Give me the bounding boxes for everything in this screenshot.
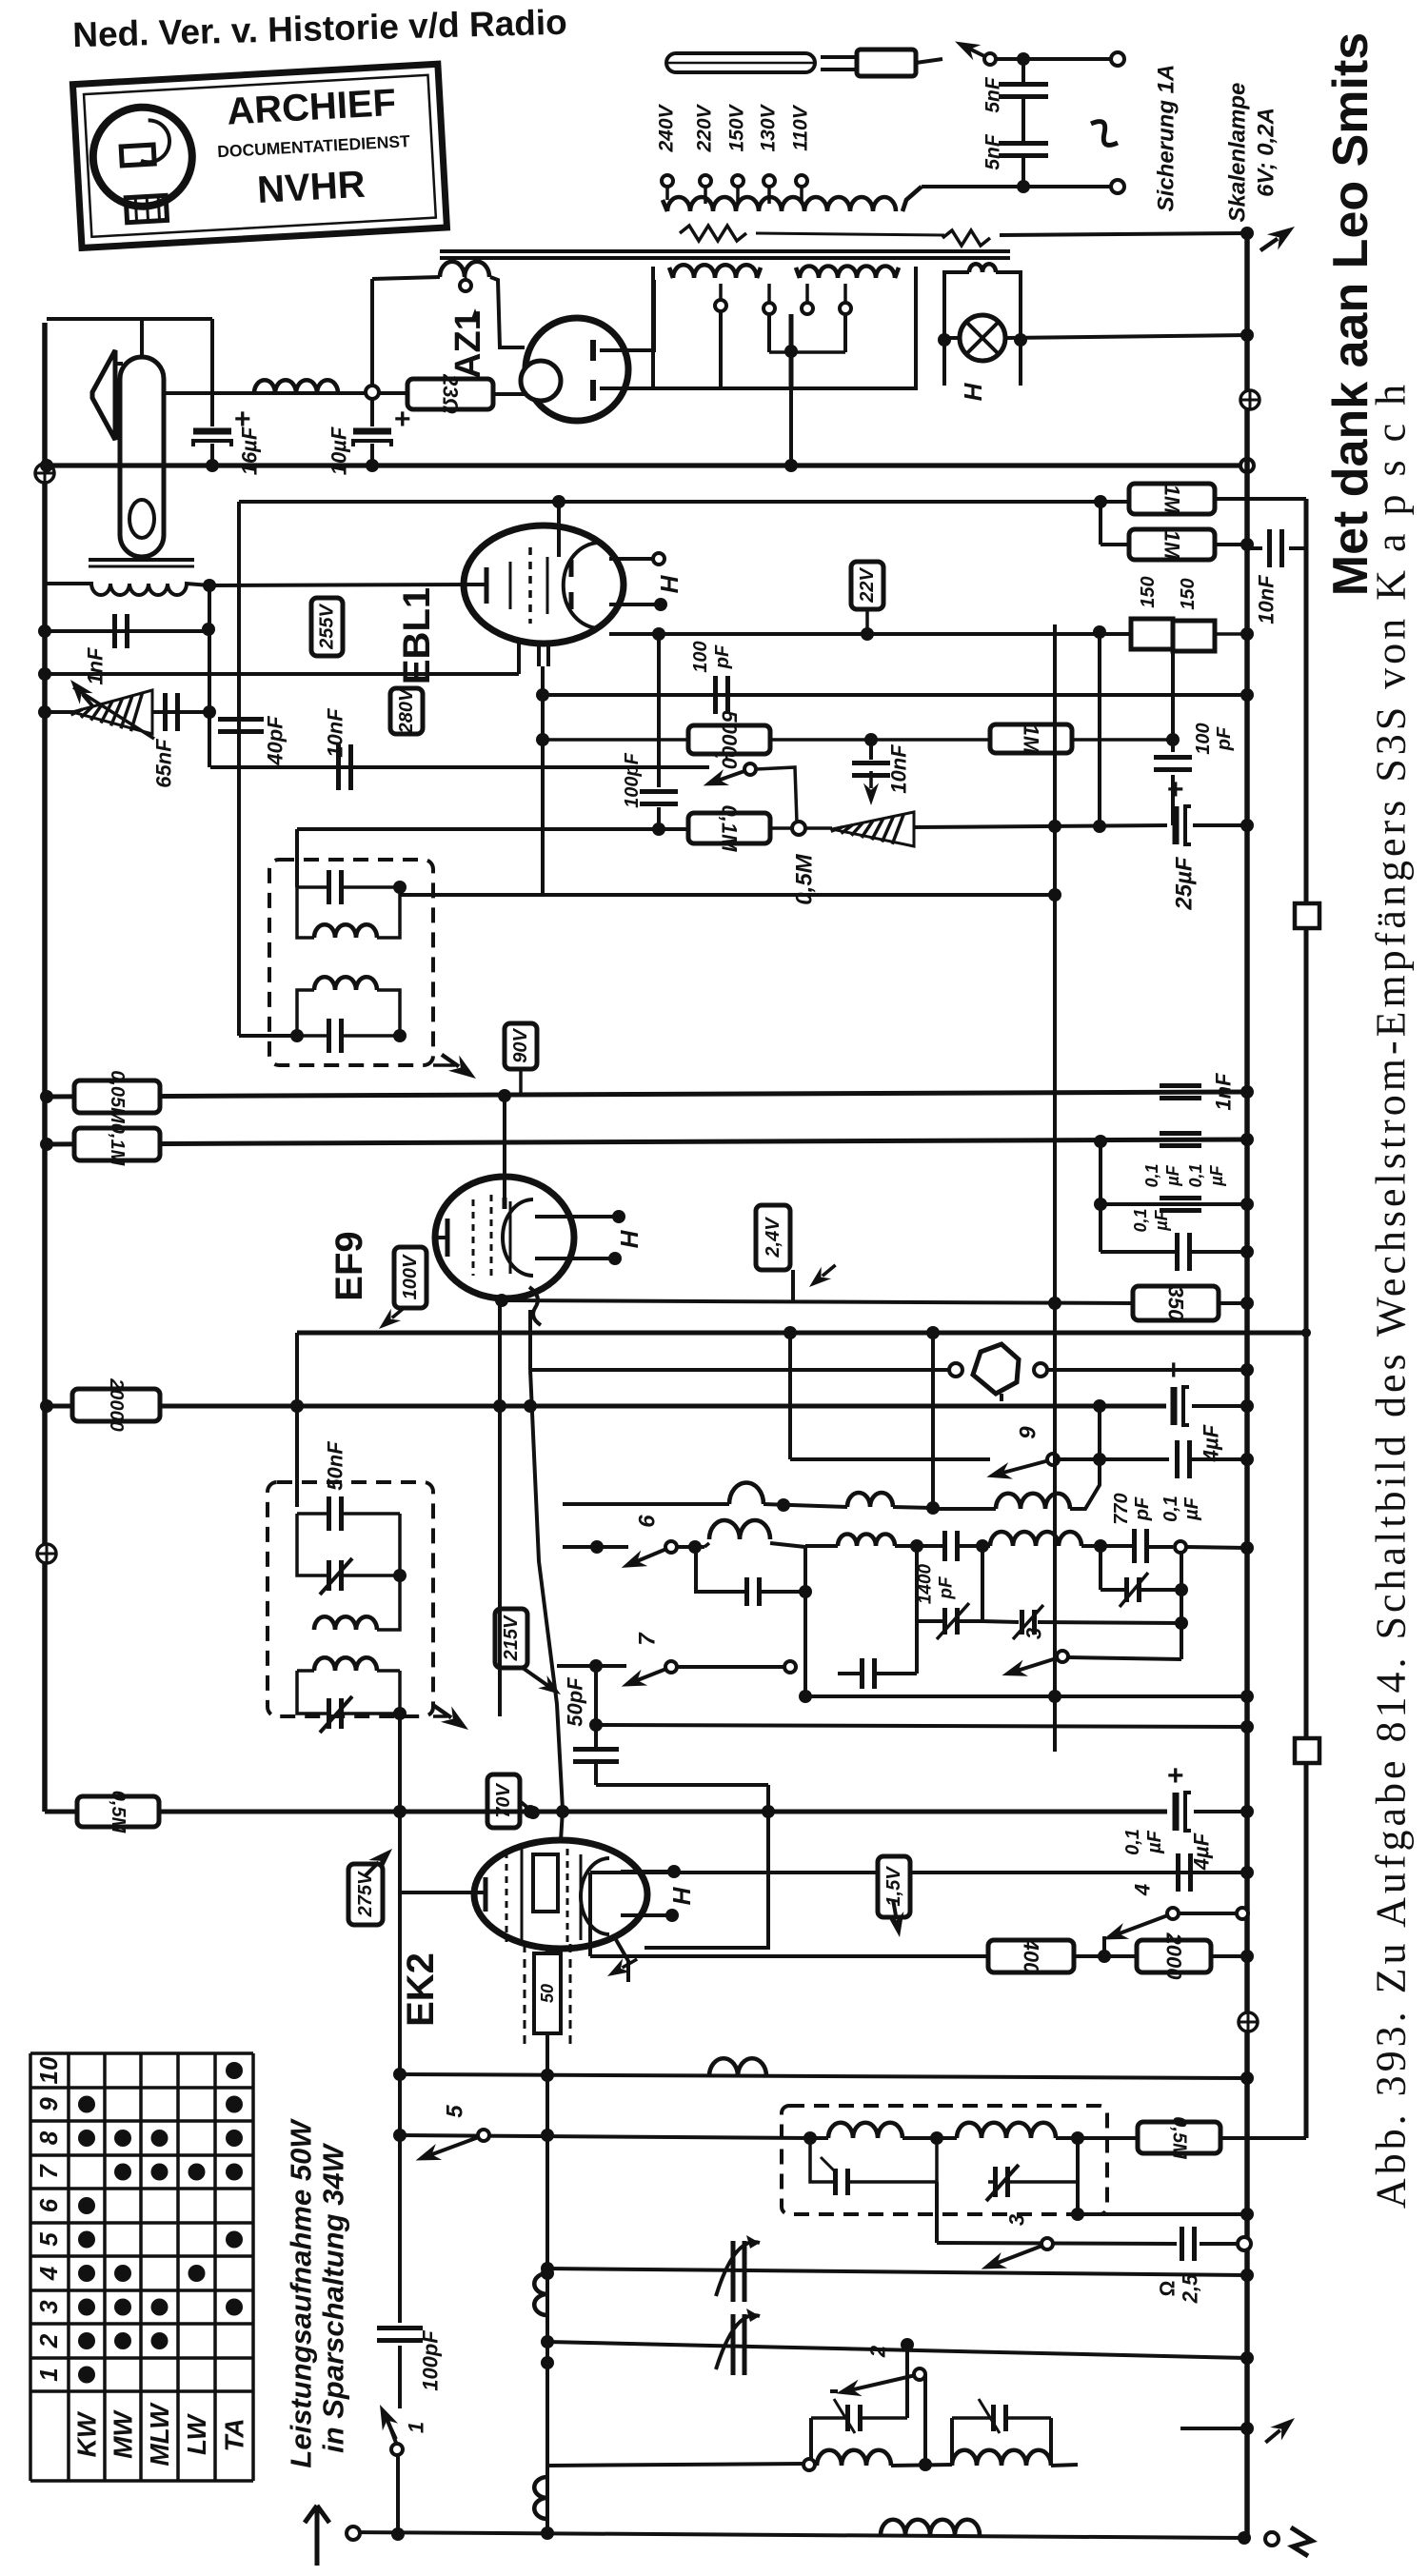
svg-text:16µF: 16µF [238, 426, 262, 475]
svg-text:255V: 255V [317, 603, 338, 649]
speaker transformer [45, 560, 216, 595]
label 1400pF [916, 1563, 957, 1604]
IF2 top cap [290, 1399, 400, 1531]
svg-text:H: H [615, 1229, 644, 1248]
vert x251 [237, 502, 241, 1036]
square coupler b [1295, 1738, 1319, 1763]
IF1 bottom coil [297, 977, 400, 1036]
capacitor 10nF row [339, 744, 351, 790]
EK2 heater stubs [621, 1865, 681, 1922]
svg-text:Sicherung 1A: Sicherung 1A [1154, 65, 1180, 212]
svg-text:50pF: 50pF [564, 1677, 587, 1727]
label 100pF bottom [419, 2330, 443, 2391]
switch 2b [830, 2345, 925, 2462]
svg-text:2: 2 [34, 2333, 63, 2348]
wire sw9 right [1059, 1406, 1169, 1466]
line y940 [400, 888, 1061, 902]
resistor 350 [1133, 1286, 1219, 1321]
archive stamp NVHR [72, 64, 446, 248]
heater coil a [669, 265, 761, 278]
cathode coil b [534, 2477, 547, 2519]
speaker top wire [140, 319, 144, 357]
svg-text:EF9: EF9 [328, 1231, 370, 1300]
switch 10 [701, 736, 756, 794]
line y748 antenna [38, 705, 210, 719]
wire 50000 [543, 733, 990, 746]
label 100V [374, 1247, 426, 1335]
label 215V [495, 1609, 527, 1668]
fuse line [1000, 227, 1254, 240]
svg-text:in Sparschaltung 34W: in Sparschaltung 34W [317, 2142, 350, 2453]
svg-text:2000: 2000 [1162, 1932, 1186, 1981]
label Sicherung 1A [1154, 65, 1180, 212]
line y2383 [541, 2262, 1254, 2282]
line y2551 right [1180, 2411, 1300, 2449]
svg-text:0,1M: 0,1M [718, 805, 742, 853]
secondary center drop [784, 388, 798, 472]
svg-text:400: 400 [1020, 1938, 1043, 1974]
label 10nF row [324, 708, 347, 758]
diode load column [640, 634, 678, 829]
resistor 1M b [1129, 529, 1215, 560]
wire row1 to y1400 [926, 1326, 940, 1509]
box3 coil a [803, 2123, 957, 2145]
label 0.1uF c [1131, 1208, 1171, 1232]
svg-text:3: 3 [1022, 1628, 1046, 1639]
capacitor 100pF mid [716, 676, 728, 714]
band switch table [30, 2053, 253, 2481]
svg-text:50: 50 [538, 1984, 557, 2003]
lamp wires [938, 328, 1254, 347]
label 65nF [152, 739, 176, 788]
label 770pF [1111, 1493, 1153, 1524]
cathode coil a [534, 2273, 547, 2315]
padder loop [917, 1546, 982, 1639]
label 150 150 [1138, 576, 1199, 609]
label 50pF [564, 1677, 587, 1727]
svg-text:Skalenlampe: Skalenlampe [1225, 83, 1251, 223]
pilot lamp [960, 315, 1005, 361]
svg-text:pF: pF [1132, 1496, 1153, 1521]
capacitor 10uF [353, 279, 411, 472]
svg-text:0,1: 0,1 [1122, 1829, 1143, 1855]
cap 4uF a [1165, 1355, 1254, 1425]
svg-text:µF: µF [1181, 1496, 1202, 1521]
capacitor 50pF [573, 1659, 768, 1812]
capacitor 0.1uF d [1179, 1853, 1191, 1892]
svg-text:150: 150 [1138, 576, 1159, 607]
label 240V [656, 103, 678, 152]
label 0.1uF b [1160, 1496, 1202, 1522]
svg-text:5nF: 5nF [982, 133, 1004, 170]
svg-text:+: + [1167, 774, 1184, 805]
svg-text:0,1: 0,1 [1142, 1163, 1161, 1187]
LC left small [696, 1520, 812, 1606]
svg-text:130V: 130V [758, 103, 780, 151]
mains switch [916, 33, 1112, 65]
switch 6 [563, 1515, 704, 1575]
svg-text:4: 4 [1131, 1884, 1155, 1896]
box3 cap a [810, 2138, 937, 2195]
row 2589 [547, 2450, 1078, 2471]
rectifier AZ1 [521, 318, 628, 421]
AZ1 filament winding [372, 262, 525, 347]
capacitor 1nF [115, 614, 128, 648]
line y489 long [40, 459, 1254, 472]
bottom line [353, 2526, 1251, 2545]
svg-text:µF: µF [1207, 1164, 1226, 1186]
switch 1 [372, 2401, 428, 2534]
svg-text:0,5M: 0,5M [108, 1791, 129, 1834]
svg-text:KW: KW [72, 2410, 102, 2457]
resistor 0.5M left [77, 1791, 159, 1834]
EF9 cathode squiggle [529, 1287, 541, 1325]
nib 275V [359, 1843, 398, 1882]
line y1967 [590, 1866, 1254, 1879]
tuning cap 2 [716, 2308, 760, 2375]
svg-text:50000: 50000 [718, 710, 742, 769]
coil b terminals [802, 284, 851, 314]
line y335 [47, 317, 212, 321]
primary zigzag [680, 226, 990, 246]
tap terminals [662, 175, 807, 187]
label Leistungsaufnahme [285, 2118, 350, 2468]
nib 215V [523, 1668, 565, 1701]
label EF9 [328, 1231, 370, 1300]
dashed IF box 2 [268, 1482, 433, 1716]
secondary taps down [721, 311, 845, 388]
switch 5 [412, 2105, 489, 2169]
IF1 top coil [297, 887, 400, 938]
cap 25uF row [1167, 774, 1254, 844]
svg-text:9: 9 [1016, 1426, 1041, 1439]
resistor 0.1M vol [688, 805, 770, 853]
label 22V [851, 562, 883, 609]
wire cap chain [1021, 59, 1025, 187]
nib 1.5V [884, 1898, 908, 1939]
svg-text:2,4V: 2,4V [763, 1217, 783, 1258]
label 220V [694, 103, 716, 152]
IF1 switch nib [433, 1047, 482, 1086]
tube EBL1 [464, 502, 624, 644]
svg-text:7: 7 [635, 1632, 661, 1646]
resistor 1M a [1129, 484, 1215, 514]
svg-text:1M: 1M [1020, 724, 1043, 754]
line y663 [38, 624, 208, 638]
label H lamp [959, 382, 987, 401]
capacitor 100pF bottom [377, 2328, 423, 2409]
resistor 20000 [72, 1377, 160, 1432]
mains cord [666, 53, 815, 72]
label 25uF [1172, 856, 1198, 911]
IF2 coil b [297, 1657, 400, 1671]
svg-text:100pF: 100pF [419, 2330, 443, 2391]
vert x420 upper [393, 1714, 473, 2135]
vert x1241 [1175, 1553, 1188, 1659]
antenna trimmer [64, 674, 154, 739]
label 1.5V [878, 1856, 910, 1917]
line y2180 [400, 2071, 1254, 2085]
wire 350 [495, 1294, 1254, 1310]
svg-text:90V: 90V [510, 1028, 531, 1063]
IF1 bottom cap [290, 1019, 407, 1053]
svg-text:pF: pF [1214, 726, 1235, 751]
label 5nF 5nF [982, 76, 1004, 170]
resistor 23ohm [407, 373, 493, 414]
svg-text:50nF: 50nF [324, 1441, 347, 1491]
resistor 400 [988, 1938, 1074, 1974]
ac squiggle [1091, 122, 1118, 146]
capacitor 0.1uF r2 [1160, 1163, 1226, 1210]
svg-text:25µF: 25µF [1172, 856, 1198, 911]
square coupler a [1295, 903, 1319, 928]
label 10nF right [1255, 575, 1279, 624]
line y1903 [45, 1805, 1167, 1818]
svg-text:10nF: 10nF [887, 744, 911, 794]
label 100pF right [1193, 723, 1235, 754]
line y1439 diamond [530, 1344, 1254, 1401]
svg-text:H: H [667, 1886, 696, 1905]
svg-text:100pF: 100pF [622, 752, 643, 808]
tuning cap 1 [716, 2235, 760, 2302]
capacitor 10nF right [1247, 529, 1306, 567]
tank1 link [803, 2345, 907, 2470]
nib Skalenlampe arrow [1255, 219, 1299, 258]
IF2 bottom cap [297, 1671, 407, 1733]
tank2 link [952, 2399, 1051, 2466]
svg-text:8: 8 [34, 2130, 63, 2145]
svg-text:pF: pF [937, 1575, 957, 1600]
svg-text:1M: 1M [1160, 530, 1184, 560]
vert x830 [783, 1326, 797, 1459]
label 10nF pot [887, 744, 911, 794]
nib 24V [804, 1259, 841, 1294]
line y708 [38, 667, 519, 681]
svg-text:0,05M: 0,05M [107, 1070, 128, 1124]
EK2 cathode resistor [525, 1944, 570, 2047]
line y527 [239, 495, 1107, 508]
label 70V [487, 1774, 540, 1828]
wire 1M c [1072, 738, 1173, 742]
IF2 nib [428, 1698, 473, 1737]
label AZ1 [448, 308, 488, 379]
switch 10 wire [756, 767, 797, 822]
chassis right bottom [1239, 2012, 1258, 2031]
EBL1 cathode pin [517, 642, 521, 674]
label 4uF a [1200, 1424, 1223, 1462]
tube EK2 [473, 1840, 647, 1949]
svg-text:1nF: 1nF [1212, 1073, 1236, 1111]
svg-text:TA: TA [220, 2418, 249, 2451]
label 16uF [238, 426, 262, 475]
svg-text:150V: 150V [726, 103, 748, 151]
wire 400 2000 [590, 1936, 1254, 1963]
mid LC [805, 1535, 917, 1696]
svg-text:10µF: 10µF [327, 426, 351, 475]
antenna arrow bottom [305, 2506, 360, 2566]
label 150V [726, 103, 748, 151]
label 2.5R [1156, 2273, 1202, 2304]
capacitor 0.1uF c [1094, 1198, 1254, 1271]
svg-text:H: H [959, 382, 987, 401]
svg-text:4µF: 4µF [1190, 1833, 1214, 1871]
trimmer cap [166, 693, 178, 731]
svg-text:0,1: 0,1 [1131, 1208, 1150, 1232]
svg-text:0,1M: 0,1M [107, 1123, 128, 1167]
left bus [42, 323, 48, 1812]
mains plug [821, 50, 916, 76]
trimmer 770 [1101, 1546, 1188, 1607]
line y2460 [541, 2335, 1254, 2365]
resistor 1M c [990, 724, 1072, 754]
EF9 bottom pins [500, 1298, 530, 1370]
svg-text:MW: MW [109, 2409, 138, 2459]
svg-text:µF: µF [1152, 1209, 1171, 1231]
label 280V [390, 687, 423, 734]
svg-text:100: 100 [1193, 723, 1214, 754]
svg-text:+: + [394, 404, 411, 435]
wire x251 to IF1 [239, 1034, 297, 1038]
wire band bottom [596, 1690, 1254, 1734]
line y2326 [1071, 2208, 1254, 2221]
svg-text:µF: µF [1144, 1830, 1165, 1854]
svg-text:0,5M: 0,5M [1169, 2116, 1190, 2160]
svg-text:EK2: EK2 [400, 1952, 442, 2027]
switch 3b [978, 2214, 1053, 2277]
label EK2 [400, 1952, 442, 2027]
svg-text:1: 1 [405, 2422, 428, 2433]
chassis right top [1240, 390, 1259, 409]
wire to transformer [902, 180, 1112, 211]
svg-text:pF: pF [712, 644, 733, 669]
chassis mid left [37, 1544, 56, 1563]
label H EBL1 [655, 574, 684, 593]
wire 150 boxes [1100, 627, 1254, 826]
svg-text:3: 3 [1005, 2214, 1029, 2226]
svg-text:NVHR: NVHR [256, 164, 367, 211]
vert x418 [398, 2135, 402, 2323]
svg-text:220V: 220V [694, 103, 716, 152]
capacitor 40pF [218, 720, 264, 732]
svg-text:9: 9 [34, 2097, 63, 2111]
svg-text:0,1: 0,1 [1186, 1163, 1205, 1187]
pilot lamp coil [969, 264, 996, 272]
EK2 grid side wire [604, 1812, 768, 1983]
svg-text:65nF: 65nF [152, 739, 176, 788]
bottom right terminal [1265, 2527, 1312, 2556]
svg-text:+: + [1165, 1355, 1182, 1386]
svg-text:2,5: 2,5 [1179, 2273, 1202, 2304]
coil y2180 [709, 2058, 766, 2076]
svg-text:150: 150 [1178, 578, 1199, 609]
svg-text:MLW: MLW [145, 2402, 174, 2467]
box3 var cap [986, 2138, 1078, 2214]
wire 1M pair [1101, 499, 1306, 551]
resistor 0.5M r [1138, 2116, 1220, 2160]
capacitor 0.1uF r1 [1142, 1134, 1201, 1188]
label 275V [348, 1864, 383, 1925]
wire EF9 col [493, 1333, 506, 1716]
label H EF9 [615, 1229, 644, 1248]
IF1 top cap [297, 829, 407, 904]
line y806 [210, 765, 709, 769]
svg-text:110V: 110V [790, 104, 812, 150]
line y1400 long [290, 1328, 1311, 1413]
svg-text:1M: 1M [1160, 485, 1184, 514]
IF2 var cap [297, 1514, 407, 1595]
svg-text:Abb. 393. Zu Aufgabe 814. Sc: Abb. 393. Zu Aufgabe 814. Schaltbild des… [1368, 381, 1415, 2209]
capacitor 10nF pot [852, 740, 890, 805]
capacitor 0.1uF b [1178, 1440, 1255, 1478]
tap wires [667, 187, 802, 204]
row 1704 [982, 1605, 1181, 1639]
resistor 150 b [1173, 621, 1215, 651]
wire 90V [519, 1069, 523, 1095]
volume pot 0.5M [831, 812, 914, 846]
terminal mains top [1111, 52, 1124, 66]
right bus A [1244, 233, 1250, 2540]
line y1477 long [40, 1399, 1166, 1413]
label 130V [758, 103, 780, 151]
label 4uF b [1190, 1833, 1214, 1871]
heater coil b [796, 266, 899, 278]
choke coil [254, 380, 338, 393]
svg-text:280V: 280V [396, 687, 417, 734]
right bus B [1304, 499, 1309, 2138]
svg-text:23Ω: 23Ω [439, 373, 463, 414]
node top [1017, 52, 1030, 66]
pilot lamp frame [944, 272, 1021, 386]
line y871 [297, 820, 1167, 836]
label 40pF [264, 716, 288, 766]
line y730 100pF [543, 688, 1254, 702]
svg-text:215V: 215V [501, 1615, 522, 1661]
switch 7 [557, 1632, 796, 1694]
tube EF9 [435, 1096, 574, 1298]
resistor 0.1M left [74, 1123, 160, 1167]
svg-text:Ω: Ω [1156, 2280, 1180, 2296]
line y1152 long [40, 1085, 1254, 1103]
svg-text:1nF: 1nF [84, 647, 108, 685]
dashed box 3 [782, 2106, 1107, 2214]
label 110V [790, 104, 812, 150]
wire 0.5M r [1220, 2136, 1306, 2140]
caption Abb. 393 [1368, 381, 1415, 2209]
coil row1 left [563, 1483, 940, 1516]
svg-text:2: 2 [866, 2345, 890, 2358]
svg-text:10nF: 10nF [1255, 575, 1279, 624]
svg-text:100V: 100V [400, 1254, 421, 1299]
svg-text:20000: 20000 [106, 1377, 127, 1432]
label 24V [756, 1205, 793, 1300]
EK2 cathode col [541, 2033, 554, 2532]
EBL1 heater stubs [609, 553, 667, 611]
svg-text:275V: 275V [355, 1871, 376, 1917]
svg-text:6V; 0,2A: 6V; 0,2A [1254, 108, 1279, 197]
label EBL1 [396, 587, 438, 684]
header text NVHR [72, 3, 567, 55]
svg-text:10: 10 [34, 2056, 63, 2084]
svg-text:100: 100 [690, 641, 711, 672]
credit text Met dank aan Leo Smits [1323, 32, 1378, 596]
svg-text:6: 6 [34, 2198, 63, 2212]
capacitor 16uF [193, 404, 251, 472]
label 0.5M [792, 853, 818, 904]
svg-text:4µF: 4µF [1200, 1424, 1223, 1462]
svg-text:6: 6 [635, 1515, 661, 1528]
wire EK2 right [588, 1873, 592, 1956]
resistor 2000 [1137, 1932, 1211, 1981]
